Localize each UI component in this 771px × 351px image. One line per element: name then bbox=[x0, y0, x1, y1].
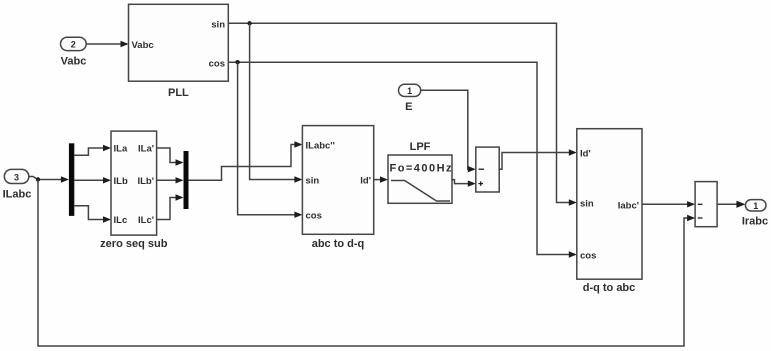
wire sin line from PLL to d-q to abc bbox=[228, 23, 577, 205]
wire Id' to LPF bbox=[374, 176, 388, 182]
svg-text:LPF: LPF bbox=[410, 141, 431, 153]
wire ILabc feedback to sum S2 bbox=[38, 180, 695, 347]
svg-text:sin: sin bbox=[306, 176, 320, 187]
inport E (port 1) bbox=[399, 84, 421, 113]
block PLL bbox=[129, 4, 229, 99]
svg-text:ILabc: ILabc bbox=[3, 189, 32, 201]
svg-text:ILabc'': ILabc'' bbox=[306, 141, 335, 152]
svg-text:ILc': ILc' bbox=[138, 215, 154, 226]
wire ILabc to demux bbox=[29, 176, 69, 182]
block abc to d-q bbox=[302, 126, 373, 250]
svg-text:1: 1 bbox=[407, 86, 412, 96]
wire sin branch to abc to d-q bbox=[250, 23, 303, 182]
svg-text:cos: cos bbox=[209, 59, 225, 70]
svg-text:sin: sin bbox=[211, 20, 225, 31]
svg-text:Fo=400Hz: Fo=400Hz bbox=[390, 163, 453, 175]
svg-text:1: 1 bbox=[753, 201, 758, 211]
inport Vabc (port 2) bbox=[61, 37, 87, 67]
wire Iabc' to sum S2 bbox=[642, 201, 695, 207]
svg-text:cos: cos bbox=[580, 251, 596, 262]
wire Vabc to PLL bbox=[86, 41, 128, 47]
wire demux out3 to ILc bbox=[74, 206, 111, 223]
wire cos line from PLL to d-q to abc bbox=[228, 62, 577, 258]
wire sum S2 to Irabc bbox=[717, 201, 745, 208]
block zero seq sub bbox=[100, 131, 168, 250]
wire sum S1 to d-q to abc Id input bbox=[499, 149, 577, 169]
svg-text:d-q to abc: d-q to abc bbox=[583, 282, 636, 294]
wire LPF to sum S1 bbox=[451, 180, 476, 187]
block LPF bbox=[388, 141, 452, 203]
svg-text:E: E bbox=[405, 101, 412, 113]
outport Irabc (port 1) bbox=[742, 200, 768, 228]
wire ILa' to mux bbox=[157, 148, 184, 166]
svg-text:2: 2 bbox=[71, 40, 76, 50]
mux bbox=[184, 151, 189, 209]
node cos branch bbox=[235, 60, 239, 64]
svg-text:cos: cos bbox=[306, 211, 322, 222]
svg-text:Iabc': Iabc' bbox=[618, 200, 639, 211]
demux bbox=[69, 143, 74, 216]
svg-text:Vabc: Vabc bbox=[132, 40, 154, 51]
node sin branch bbox=[247, 21, 251, 25]
wire demux out1 to ILa bbox=[74, 145, 111, 156]
node ILabc branch bbox=[36, 177, 40, 181]
svg-text:ILa': ILa' bbox=[138, 144, 154, 155]
svg-text:Irabc: Irabc bbox=[742, 216, 768, 228]
svg-text:PLL: PLL bbox=[168, 87, 189, 99]
wire mux out to abc to d-q ILabc input bbox=[189, 141, 303, 180]
wire ILb' to mux bbox=[157, 177, 184, 183]
sum block S1 bbox=[476, 147, 499, 192]
svg-text:Id': Id' bbox=[360, 176, 371, 187]
wire ILc' to mux bbox=[157, 194, 184, 219]
svg-text:Id': Id' bbox=[580, 148, 591, 159]
wire cos branch to abc to d-q bbox=[238, 62, 303, 218]
svg-text:ILb': ILb' bbox=[137, 176, 154, 187]
svg-text:ILb: ILb bbox=[114, 176, 128, 187]
inport ILabc (port 3) bbox=[3, 169, 32, 200]
wire demux out2 to ILb bbox=[74, 177, 111, 183]
svg-text:Vabc: Vabc bbox=[61, 56, 87, 68]
wire E to sum S1 bbox=[421, 90, 476, 172]
svg-text:ILa: ILa bbox=[114, 144, 128, 155]
block d-q to abc bbox=[577, 129, 642, 294]
svg-text:abc to d-q: abc to d-q bbox=[312, 238, 365, 250]
sum block S2 bbox=[695, 182, 717, 227]
svg-text:zero seq sub: zero seq sub bbox=[100, 238, 168, 250]
svg-text:3: 3 bbox=[14, 173, 19, 183]
svg-text:ILc: ILc bbox=[114, 215, 128, 226]
svg-text:sin: sin bbox=[580, 199, 594, 210]
